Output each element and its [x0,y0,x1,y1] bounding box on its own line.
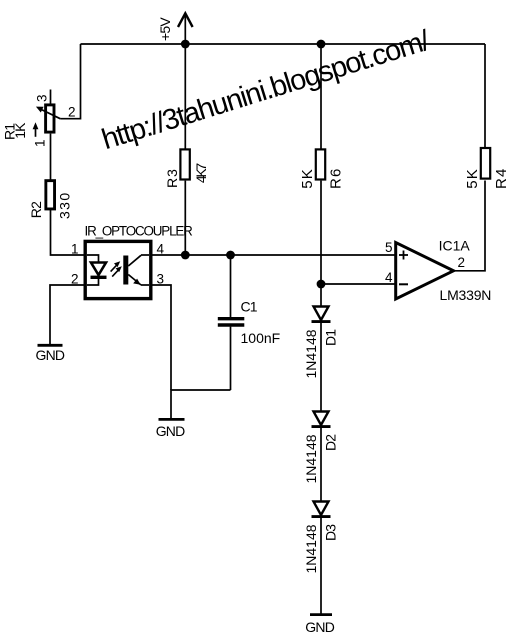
wire R4 top to rail [484,44,486,148]
wire minus input [321,283,395,285]
wire C1 bottom [230,327,232,390]
op-amp plus sign [399,251,408,260]
svg-text:D1: D1 [323,329,339,346]
wire R2 to optocoupler pin1 [51,210,85,255]
node junction opto/R3 [181,251,190,260]
wire C1 bottom to pin3 wire [171,390,231,418]
ground bottom [310,613,332,616]
wire node to D1 [320,284,322,307]
svg-text:D3: D3 [323,524,339,541]
wire opto pin3 down [151,285,171,390]
wire opto pin2 to GND [50,285,84,344]
wire top +5V rail [81,43,486,45]
svg-text:IC1A: IC1A [439,237,471,253]
svg-text:4: 4 [385,270,393,285]
diode D2 [312,412,331,427]
op-amp minus sign [399,283,408,285]
svg-text:1N4148: 1N4148 [303,524,319,573]
wire opto pin4 to comparator + input [151,254,395,256]
svg-text:2: 2 [68,105,75,120]
resistor R3 body [180,149,189,179]
resistor R6 body [316,149,325,179]
resistor R2 body [46,181,55,209]
svg-text:LM339N: LM339N [440,287,492,303]
wire R3 bottom [184,181,186,255]
svg-text:1N4148: 1N4148 [303,329,319,378]
svg-text:IR_OPTOCOUPLER: IR_OPTOCOUPLER [85,223,194,238]
R1 wiper arrow [36,107,60,119]
svg-text:5K: 5K [464,168,481,189]
svg-text:5K: 5K [299,168,316,189]
svg-text:100nF: 100nF [241,330,281,346]
svg-text:3: 3 [35,95,50,102]
wire R3 top [184,44,186,149]
wire R6 top [320,44,322,149]
node junction at rail / R6 [317,40,326,49]
wire R1 wiper to rail [60,44,80,119]
op-amp IC1A triangle [396,243,454,300]
wire D2 to D3 [320,427,322,502]
svg-text:4K7: 4K7 [193,163,209,184]
svg-text:R4: R4 [493,167,510,189]
svg-text:R6: R6 [328,167,345,189]
R1 adjust arrow [33,122,39,137]
svg-text:GND: GND [36,347,65,363]
capacitor C1 plates [218,317,245,320]
wire R1 to R2 [50,134,52,180]
+5V supply symbol [178,13,193,44]
wire op-amp output to R4 [454,181,486,271]
svg-text:R3: R3 [164,168,180,188]
svg-text:1: 1 [33,140,48,147]
svg-text:+5V: +5V [157,17,173,41]
resistor R4 body [481,148,490,179]
svg-text:GND: GND [305,619,334,635]
opto LED light arrows [111,262,121,277]
opto internal LED [87,255,107,285]
diode D3 [312,502,331,517]
ground middle [159,418,185,421]
diode D1 [312,307,331,322]
node junction C1 tap [226,251,235,260]
R1 pin3 stub [50,90,52,104]
resistor R1 (trim pot) body [46,105,54,132]
ground left [38,344,63,347]
wire R6 bottom to minus input node [320,181,322,284]
svg-text:5: 5 [385,240,392,255]
opto phototransistor [123,255,149,285]
wire C1 top [230,255,232,318]
svg-text:GND: GND [156,423,185,439]
node junction R6/D1/minus [317,280,326,289]
svg-text:R2: R2 [28,201,44,218]
wire D3 to ground [320,517,322,614]
svg-text:C1: C1 [241,299,258,315]
svg-text:1N4148: 1N4148 [303,434,319,483]
svg-text:1K: 1K [12,122,28,139]
svg-text:330: 330 [57,191,73,219]
svg-text:1: 1 [71,242,78,257]
wire D1 to D2 [320,322,322,412]
optocoupler IR_OPTOCOUPLER box [85,241,151,298]
svg-text:2: 2 [458,255,465,270]
svg-text:D2: D2 [323,434,339,451]
node junction at +5V rail / R3 [181,40,190,49]
